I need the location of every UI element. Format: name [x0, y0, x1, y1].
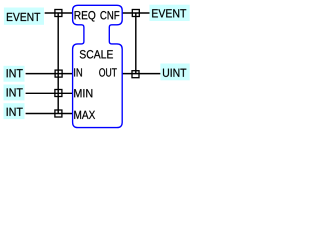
- label text EVENT (left): [7, 13, 40, 21]
- wire OUT to UINT: [122, 73, 160, 75]
- wire CNF to EVENT: [122, 12, 149, 14]
- label text INT (IN): [7, 69, 23, 77]
- label text INT (MIN): [7, 88, 23, 96]
- pin label OUT: [99, 68, 117, 76]
- wire left rail: [57, 13, 59, 114]
- node junction INT3/MAX: [55, 110, 62, 117]
- label text UINT: [163, 69, 186, 77]
- label cell EVENT (left): [4, 8, 44, 25]
- label cell INT (MAX): [4, 103, 25, 119]
- pin label REQ: [75, 11, 96, 21]
- label cell UINT: [160, 64, 189, 81]
- node junction EVENT/REQ: [55, 10, 62, 17]
- pin label MAX: [74, 111, 95, 119]
- wire INT1 to IN: [26, 73, 73, 75]
- wire INT3 to MAX: [26, 113, 73, 115]
- node junction INT1/IN: [55, 70, 62, 77]
- label cell EVENT (right): [150, 5, 190, 21]
- wire right rail: [135, 13, 137, 74]
- pin label MIN: [74, 89, 92, 97]
- label text INT (MAX): [7, 108, 23, 116]
- label text EVENT (right): [152, 9, 186, 17]
- block name SCALE: [80, 50, 113, 58]
- pin label IN: [74, 68, 82, 76]
- function block SCALE outline: [73, 5, 123, 127]
- label cell INT (IN): [4, 66, 25, 82]
- node junction OUT/UINT: [132, 71, 139, 78]
- node junction CNF/EVENT: [132, 10, 139, 17]
- wire EVENT to REQ: [45, 12, 73, 14]
- label cell INT (MIN): [4, 85, 25, 101]
- node junction INT2/MIN: [55, 90, 62, 97]
- wire INT2 to MIN: [26, 92, 73, 94]
- pin label CNF: [100, 11, 119, 19]
